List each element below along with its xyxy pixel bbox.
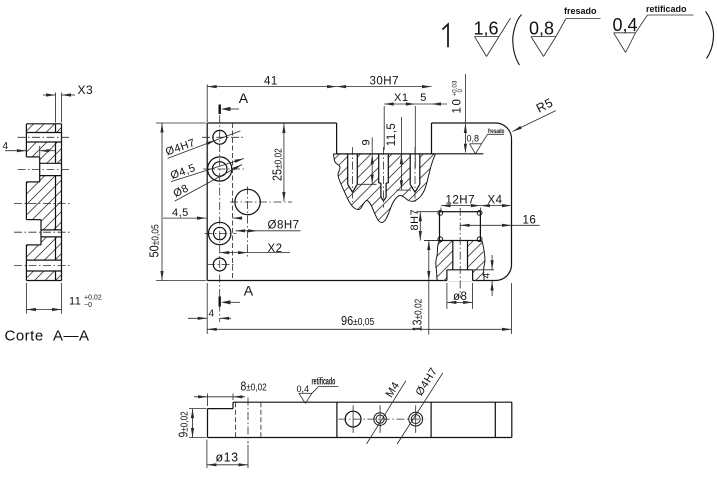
svg-text:1,6: 1,6 (474, 19, 499, 39)
svg-text:fresado: fresado (488, 128, 505, 135)
svg-text:0,8: 0,8 (467, 134, 480, 144)
svg-text:A: A (244, 283, 254, 299)
svg-text:0,4: 0,4 (297, 384, 310, 394)
svg-text:ø8: ø8 (453, 291, 467, 303)
svg-text:4: 4 (481, 272, 492, 278)
svg-text:Corte A—A: Corte A—A (5, 328, 90, 345)
svg-text:+0,03: +0,03 (452, 80, 459, 96)
svg-text:41: 41 (264, 76, 278, 88)
svg-text:13±0,02: 13±0,02 (409, 299, 424, 332)
svg-text:Ø8H7: Ø8H7 (268, 220, 300, 232)
svg-text:11,5: 11,5 (386, 123, 398, 147)
svg-text:8H7: 8H7 (409, 209, 421, 231)
svg-text:5: 5 (420, 92, 427, 104)
svg-text:ø13: ø13 (216, 451, 239, 465)
svg-text:+0,02: +0,02 (84, 295, 102, 302)
svg-text:A: A (239, 90, 249, 106)
svg-text:0,8: 0,8 (529, 19, 554, 39)
svg-text:9±0,02: 9±0,02 (177, 411, 191, 437)
svg-text:X1: X1 (394, 92, 408, 104)
svg-text:retificado: retificado (312, 376, 336, 387)
svg-text:12H7: 12H7 (446, 195, 476, 207)
svg-text:30H7: 30H7 (370, 76, 400, 88)
svg-text:11: 11 (69, 296, 81, 308)
svg-text:10: 10 (452, 98, 464, 114)
svg-text:fresado: fresado (564, 6, 597, 16)
svg-text:X3: X3 (78, 83, 94, 97)
svg-text:4: 4 (3, 141, 9, 152)
svg-text:X4: X4 (488, 195, 503, 207)
svg-text:−0: −0 (84, 302, 92, 309)
svg-text:16: 16 (523, 215, 537, 227)
svg-text:retificado: retificado (646, 4, 687, 14)
svg-text:9: 9 (361, 139, 373, 146)
svg-text:4,5: 4,5 (172, 207, 189, 219)
svg-text:25±0,02: 25±0,02 (269, 148, 284, 181)
svg-text:8±0,02: 8±0,02 (241, 380, 267, 394)
svg-text:4: 4 (209, 309, 215, 320)
svg-text:0,4: 0,4 (613, 15, 638, 35)
svg-text:96±0,05: 96±0,05 (341, 313, 374, 328)
svg-text:50±0,05: 50±0,05 (146, 224, 161, 257)
svg-text:X2: X2 (268, 243, 283, 255)
svg-text:0: 0 (457, 89, 464, 93)
